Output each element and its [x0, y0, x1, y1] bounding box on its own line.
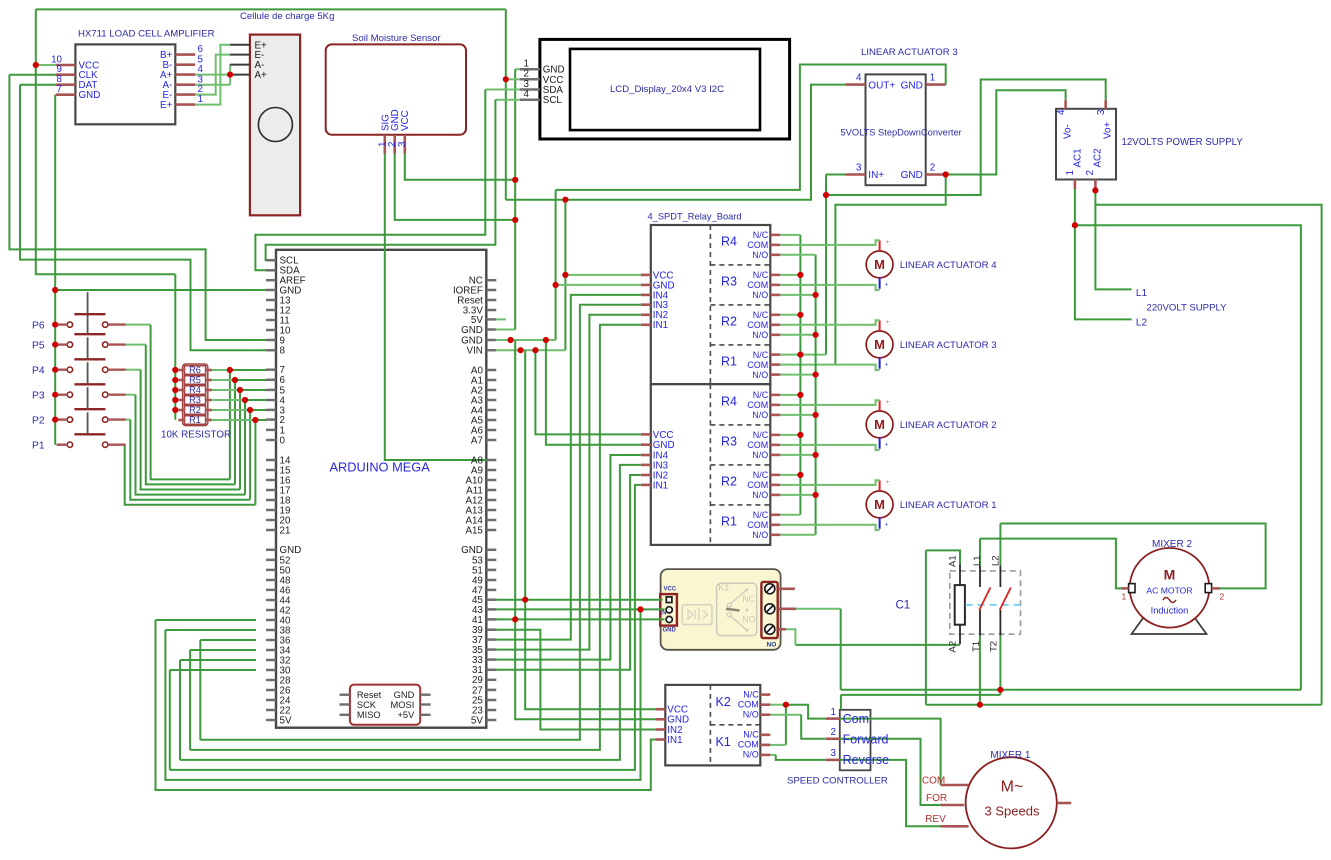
wire AC2 to right vertical [1095, 205, 1321, 705]
wire Arduino 5V short stub [496, 318, 506, 320]
svg-text:REV: REV [925, 814, 946, 825]
relay module screw terminal block [761, 582, 777, 638]
resistor R6 [185, 366, 206, 375]
svg-text:N/O: N/O [743, 750, 759, 760]
wire pin30 to IN1 board2 [170, 485, 641, 770]
junction dots [33, 62, 39, 68]
wire HX711 VCC vertical [36, 9, 176, 274]
wire pin36 left [200, 639, 256, 641]
wire R1 N/O row board1 [780, 374, 815, 376]
svg-text:K1: K1 [716, 735, 731, 749]
wire R3 COM board2 to actuator 2 bottom [780, 445, 879, 450]
wire R3 N/C row board1 [780, 274, 800, 276]
screw terminal at y=629.3 [765, 624, 775, 634]
wire OUT+ row to stepdown [506, 85, 846, 200]
wire pushbutton P5 riser [234, 380, 236, 484]
wire R1 N/O row board2 [780, 534, 815, 536]
Arduino left pin stubs and labels [266, 259, 276, 262]
4 SPDT relay board 2 box [651, 384, 771, 545]
svg-text:L2: L2 [1136, 318, 1148, 329]
svg-text:4: 4 [524, 89, 530, 100]
pushbutton leads [57, 323, 68, 325]
pushbutton P4 [67, 367, 72, 372]
ICSP pin stubs [340, 694, 350, 696]
wire L1 contact from mixer2 pin1 [979, 539, 981, 566]
wire R2 N/O row board1 [780, 334, 815, 336]
actuator bottom terminal [879, 358, 881, 369]
pushbutton P6 [67, 322, 72, 327]
svg-text:NO: NO [767, 642, 777, 649]
pin stubs relay board2 right [770, 394, 780, 397]
svg-text:COM: COM [747, 480, 768, 490]
wire pin40 to K IN1 [156, 619, 257, 621]
wire pushbutton P6 riser [229, 370, 231, 479]
svg-text:3: 3 [856, 163, 862, 174]
wire R4 COM board2 to actuator 2 top [780, 400, 879, 405]
pin stubs relay module screws [778, 587, 795, 590]
wire VIN to VCC board2 [535, 350, 640, 434]
module relay glyph [731, 591, 747, 630]
svg-text:2: 2 [831, 727, 836, 738]
svg-text:SPEED CONTROLLER: SPEED CONTROLLER [787, 776, 888, 787]
wire 220V row1 (COM screw / T2 / AC1) [841, 689, 1301, 691]
resistor R2 [185, 406, 206, 415]
actuator bottom terminal [879, 438, 881, 449]
wire GND2 stepdown down to R1 COM [835, 175, 945, 365]
wire P6 run [126, 324, 151, 326]
svg-text:NC: NC [742, 594, 755, 604]
speed controller box [840, 710, 871, 771]
wire pushbutton P1 riser [254, 420, 256, 505]
svg-text:3: 3 [397, 141, 408, 147]
wire LCD SCL to Arduino SCL [495, 99, 519, 101]
wire LCD GND vertical [515, 68, 520, 70]
wire R1 N/C row board2 [780, 514, 800, 516]
wire pushbutton P4 riser [239, 390, 241, 490]
svg-text:GND: GND [901, 80, 923, 91]
svg-text:0: 0 [280, 435, 286, 446]
wire R3 N/O row board2 [780, 454, 815, 456]
svg-text:COM: COM [738, 740, 759, 750]
wire LCD SDA to Arduino SDA [485, 89, 519, 91]
svg-text:4_SPDT_Relay_Board: 4_SPDT_Relay_Board [648, 212, 742, 222]
svg-text:N/O: N/O [752, 450, 768, 460]
actuator top terminal [879, 320, 881, 331]
svg-text:M: M [874, 337, 885, 352]
pushbutton P5 [67, 342, 72, 347]
wire HX711 E+ to load cell E+ [195, 45, 230, 105]
wire Reverse to mixer REV [840, 760, 941, 826]
pin stubs stepdown converter [845, 83, 865, 86]
svg-text:N/C: N/C [753, 270, 769, 280]
svg-text:E+: E+ [160, 100, 173, 111]
svg-text:8: 8 [280, 346, 286, 357]
svg-text:LINEAR ACTUATOR 3: LINEAR ACTUATOR 3 [861, 47, 958, 58]
wire R1 COM row board1 to actuator 3 [780, 365, 879, 370]
svg-text:R5: R5 [189, 375, 201, 385]
wire relay1 GND row [556, 284, 641, 286]
wire top 5V net horizontal [36, 8, 506, 10]
svg-text:2: 2 [1220, 592, 1225, 602]
svg-text:4: 4 [1056, 109, 1067, 115]
wire soil VCC to LCD GND net [405, 154, 515, 180]
contactor contact at x=980 [979, 566, 981, 588]
wire pin37 to IN4 board1 [496, 295, 641, 640]
svg-text:AC1: AC1 [1072, 148, 1083, 167]
svg-text:R2: R2 [721, 474, 737, 488]
wire HX711 A+ to load cell A+ [195, 74, 230, 76]
resistor R3 [185, 396, 206, 405]
resistor R5 [185, 376, 206, 385]
wire R4 N/O row board1 [780, 254, 815, 256]
svg-text:1: 1 [1122, 592, 1127, 602]
wire soil SIG to A8 [385, 154, 487, 460]
pin stubs 12V supply [1064, 100, 1067, 109]
wire LCD VCC short [506, 78, 520, 80]
wire T1 contact down [979, 636, 981, 705]
svg-text:R6: R6 [189, 365, 201, 375]
wire R3 N/O row board1 [780, 294, 815, 296]
wire R4 N/C row board2 [780, 394, 800, 396]
contactor contact at x=1000.4 [999, 566, 1001, 588]
wire load cell black leads [230, 44, 250, 46]
svg-text:7: 7 [57, 84, 62, 95]
wire resistor R4 to Arduino pin [212, 389, 240, 391]
wire R4 N/C row board1 [780, 234, 800, 236]
wire relay1 VCC row [565, 274, 640, 276]
wire P5 run [126, 344, 146, 346]
wire LCD VCC vertical down to OUT+ row [505, 9, 507, 199]
5V stepdown converter box [866, 74, 926, 185]
relay module VCC pin [666, 597, 672, 603]
svg-text:2: 2 [1085, 170, 1096, 175]
wire K1 N/O to Reverse [770, 754, 775, 756]
svg-text:P1: P1 [32, 441, 45, 452]
svg-text:VIN: VIN [467, 346, 483, 357]
svg-text:N/O: N/O [752, 370, 768, 380]
svg-text:P5: P5 [32, 341, 45, 352]
resistor R1 [185, 416, 206, 425]
svg-text:R2: R2 [189, 405, 201, 415]
wire resistor R6 to Arduino pin [212, 369, 230, 371]
svg-text:GND: GND [461, 325, 483, 336]
svg-text:K1: K1 [718, 583, 729, 593]
wire GND vertical to K board GND [515, 340, 655, 719]
wire R2 N/C row board1 [780, 314, 800, 316]
svg-text:SCL: SCL [543, 95, 563, 106]
svg-text:+: + [886, 400, 890, 406]
wire pin43 to relay module IN [496, 608, 665, 610]
relay module optocoupler [682, 605, 712, 625]
wire HX711 A- to load cell A- riser [195, 84, 230, 86]
wire resistor R2 to Arduino pin [212, 409, 250, 411]
svg-text:IN1: IN1 [653, 320, 668, 331]
svg-text:10K RESISTOR: 10K RESISTOR [161, 430, 231, 441]
svg-text:LCD_Display_20x4 V3 I2C: LCD_Display_20x4 V3 I2C [610, 84, 724, 95]
wire GND1 stepdown net [556, 65, 946, 190]
screw terminal at y=608.8 [765, 604, 775, 614]
wire GND to GND board2 [546, 340, 641, 445]
svg-text:N/O: N/O [752, 330, 768, 340]
svg-text:COM: COM [747, 360, 768, 370]
svg-text:5VOLTS StepDownConverter: 5VOLTS StepDownConverter [841, 127, 962, 137]
wire A2 coil to relay module N/O [795, 644, 960, 646]
LCD pin stubs [520, 68, 540, 71]
svg-text:4: 4 [856, 73, 862, 84]
svg-text:1: 1 [1065, 170, 1076, 175]
svg-text:HX711 LOAD CELL AMPLIFIER: HX711 LOAD CELL AMPLIFIER [78, 29, 215, 40]
mixer 2 base [1132, 614, 1207, 634]
svg-text:A1: A1 [948, 555, 959, 567]
wire P2 run [126, 419, 131, 421]
svg-text:P3: P3 [32, 391, 45, 402]
svg-text:Forward: Forward [843, 732, 889, 746]
load cell circle [258, 108, 292, 142]
wire resistor common left vertical [174, 274, 176, 420]
svg-text:P4: P4 [32, 366, 45, 377]
wire Arduino VIN row [496, 349, 566, 351]
wire resistor R3 to Arduino pin [212, 399, 245, 401]
resistor R4 [185, 386, 206, 395]
svg-text:Reset: Reset [357, 690, 382, 700]
svg-text:LINEAR ACTUATOR 2: LINEAR ACTUATOR 2 [900, 420, 997, 431]
svg-text:T1: T1 [971, 641, 982, 652]
svg-text:MIXER 1: MIXER 1 [990, 750, 1030, 761]
svg-text:M: M [874, 257, 885, 272]
svg-text:M: M [1164, 567, 1176, 583]
svg-text:N/C: N/C [753, 470, 769, 480]
svg-text:P6: P6 [32, 321, 45, 332]
svg-text:L1: L1 [972, 555, 983, 566]
LCD display outer box [540, 39, 790, 139]
wire R3 COM board1 to actuator 4 bottom [780, 285, 879, 290]
svg-text:IN1: IN1 [653, 480, 668, 491]
wire pin35 to IN2 board1 [496, 315, 641, 650]
wire AC1 net vertical and L2 [1075, 189, 1132, 319]
wire R4 COM board1 to actuator 4 top [780, 240, 879, 245]
svg-text:GND: GND [663, 627, 677, 633]
svg-text:OUT+: OUT+ [868, 80, 895, 91]
svg-text:1: 1 [930, 73, 935, 84]
svg-text:LINEAR ACTUATOR 1: LINEAR ACTUATOR 1 [900, 500, 997, 511]
svg-text:A7: A7 [471, 435, 483, 446]
wire pin32 to IN3 board2 [180, 465, 641, 760]
soil moisture sensor body [326, 44, 466, 134]
svg-text:R3: R3 [721, 274, 737, 288]
wire R1 COM board2 to actuator 1 bottom [780, 525, 879, 530]
relay module K1 relay outline [717, 583, 757, 635]
svg-text:+: + [886, 240, 890, 246]
wire pin31 to IN2 board2 [496, 475, 641, 670]
svg-text:M~: M~ [1001, 779, 1024, 796]
svg-text:GND: GND [394, 690, 415, 700]
mixer 2 motor circle [1130, 548, 1210, 628]
wire A1 coil to 220V row2 [925, 550, 927, 704]
resistor stack outline [183, 364, 208, 426]
svg-text:A2: A2 [948, 641, 959, 653]
pin stubs mixer1 left [941, 784, 969, 787]
svg-text:N/C: N/C [753, 230, 769, 240]
svg-text:N/C: N/C [743, 690, 759, 700]
pin stubs soil sensor [383, 135, 386, 154]
svg-text:COM: COM [747, 320, 768, 330]
wire HX711 VCC pin row [36, 64, 56, 66]
4 SPDT relay board 1 box [651, 225, 771, 384]
wire R4 N/O row board2 [780, 414, 815, 416]
svg-text:MISO: MISO [357, 710, 381, 720]
svg-text:N/C: N/C [753, 310, 769, 320]
svg-text:5V: 5V [280, 715, 292, 726]
svg-text:MIXER 2: MIXER 2 [1152, 539, 1192, 550]
wire R2 COM board2 to actuator 1 top [780, 480, 879, 485]
motor LINEAR ACTUATOR 2 [866, 411, 893, 438]
actuator top terminal [879, 480, 881, 491]
wire HX711 DAT to Arduino 8 [20, 84, 56, 86]
wire R3 N/C row board2 [780, 434, 800, 436]
svg-text:R1: R1 [189, 415, 201, 425]
svg-text:K2: K2 [716, 695, 731, 709]
wire pin32 left [180, 659, 256, 661]
svg-text:A15: A15 [465, 525, 483, 536]
svg-text:COM: COM [747, 400, 768, 410]
wire 220V row2 (A1 / T1 / AC2) [926, 704, 1322, 706]
wire AC1 to right vertical [1075, 225, 1301, 690]
mixer 2 terminal 2 [1205, 584, 1211, 593]
wire R1 N/C row board1 [780, 354, 826, 356]
wire HX711 GND to pushbuttons [54, 95, 56, 445]
pin stubs resistors [178, 369, 184, 372]
wire pin30 left [170, 669, 256, 671]
svg-text:GND: GND [79, 90, 101, 101]
actuator bottom terminal [879, 278, 881, 289]
pin stubs relay board1 left [641, 274, 651, 277]
svg-text:Vo-: Vo- [1062, 124, 1073, 139]
wire relay1 GND riser [555, 190, 557, 340]
svg-text:1: 1 [831, 707, 836, 718]
wire Com to mixer COM [840, 719, 941, 785]
svg-text:3: 3 [831, 748, 837, 759]
svg-text:Soil Moisture Sensor: Soil Moisture Sensor [352, 33, 441, 44]
svg-text:FOR: FOR [926, 793, 947, 804]
svg-text:Vo+: Vo+ [1103, 122, 1114, 139]
pushbutton P3 [67, 392, 72, 397]
svg-text:+5V: +5V [397, 710, 415, 720]
wire pushbutton P2 riser [249, 410, 251, 500]
wire R2 N/O row board2 [780, 494, 815, 496]
svg-text:VCC: VCC [664, 587, 677, 593]
wire pin41 to relay module GND [496, 618, 665, 620]
pin stubs K board right [760, 693, 770, 696]
svg-text:VCC: VCC [400, 110, 411, 131]
svg-text:COM: COM [747, 280, 768, 290]
svg-text:220VOLT SUPPLY: 220VOLT SUPPLY [1147, 303, 1228, 314]
pin stubs HX711 left [56, 64, 76, 67]
svg-text:A+: A+ [255, 70, 268, 81]
wire P1 run [125, 445, 256, 505]
wire pin38 to module IN riser [165, 629, 256, 631]
wire R2 N/C row board2 [780, 474, 800, 476]
svg-text:R3: R3 [189, 395, 201, 405]
svg-text:N/O: N/O [752, 530, 768, 540]
contactor dashed outline [950, 571, 1021, 634]
svg-text:Cellule de charge 5Kg: Cellule de charge 5Kg [240, 11, 334, 22]
wire module COM screw to 220V row1 [796, 608, 841, 610]
K relay board box [665, 685, 760, 766]
wire soil GND across [395, 154, 516, 220]
wire IN+ net to Vo+ [826, 174, 845, 176]
svg-text:R1: R1 [721, 514, 737, 528]
svg-text:R4: R4 [189, 385, 201, 395]
pushbutton P2 [67, 417, 72, 422]
svg-text:LINEAR ACTUATOR 4: LINEAR ACTUATOR 4 [900, 260, 997, 271]
svg-text:Com: Com [843, 712, 869, 726]
svg-text:N/O: N/O [752, 250, 768, 260]
wire P3 run [126, 394, 136, 396]
motor LINEAR ACTUATOR 3 [866, 331, 893, 358]
svg-text:+: + [886, 480, 890, 486]
wire module N/O screw down [786, 629, 796, 645]
wire pin33 to IN4 board2 [496, 455, 641, 660]
wire resistor R1 to Arduino pin [212, 419, 256, 421]
Arduino ICSP header box [350, 685, 420, 725]
contactor mechanical link dashed cyan [966, 604, 1021, 606]
motor LINEAR ACTUATOR 4 [866, 251, 893, 278]
pin stubs HX711 right [175, 53, 195, 56]
svg-text:Reverse: Reverse [843, 753, 890, 767]
svg-text:M: M [874, 497, 885, 512]
svg-text:COM: COM [747, 440, 768, 450]
wire K2 COM to K1 COM link [785, 705, 787, 745]
wire GND2 stepdown to Vo- [946, 90, 1066, 174]
relay module GND pin [666, 616, 672, 622]
mixer 1 motor circle [966, 757, 1057, 848]
svg-text:3: 3 [1096, 109, 1107, 115]
svg-text:+: + [886, 320, 890, 326]
wire HX711 E- to load cell E- [195, 55, 230, 95]
svg-text:N/O: N/O [752, 410, 768, 420]
pin stub mixer1 right [1057, 802, 1071, 805]
svg-text:LINEAR ACTUATOR 3: LINEAR ACTUATOR 3 [900, 340, 997, 351]
svg-text:21: 21 [280, 525, 291, 536]
screw terminal at y=588.8 [765, 584, 775, 594]
svg-text:GND: GND [901, 170, 923, 181]
load cell Cellule de charge body [250, 35, 300, 216]
svg-text:AC MOTOR: AC MOTOR [1146, 586, 1192, 596]
12V power supply box [1056, 109, 1116, 180]
svg-text:IN1: IN1 [667, 735, 682, 746]
pin stubs K board left [656, 708, 666, 711]
wire N/O common vertical [815, 255, 817, 535]
svg-text:R2: R2 [721, 314, 737, 328]
wire VIN vertical to K board VCC [525, 350, 655, 709]
wire pushbutton P3 riser [244, 400, 246, 495]
wire K2 N/O to Forward [770, 714, 801, 716]
svg-text:C1: C1 [896, 600, 911, 612]
wire 220V row3 to speed controller top [841, 694, 1001, 696]
svg-text:AC2: AC2 [1093, 148, 1104, 167]
svg-text:SCK: SCK [357, 700, 377, 710]
contactor A2 lead [959, 625, 961, 645]
pin stubs relay board1 right [770, 234, 780, 237]
svg-text:R4: R4 [721, 234, 737, 248]
svg-text:N/C: N/C [753, 350, 769, 360]
svg-text:12VOLTS POWER SUPPLY: 12VOLTS POWER SUPPLY [1122, 137, 1244, 148]
svg-text:R4: R4 [721, 394, 737, 408]
svg-text:N/O: N/O [743, 710, 759, 720]
wire resistor R5 to Arduino pin [212, 379, 235, 381]
relay module pin block [660, 594, 677, 626]
motor LINEAR ACTUATOR 1 [866, 491, 893, 518]
